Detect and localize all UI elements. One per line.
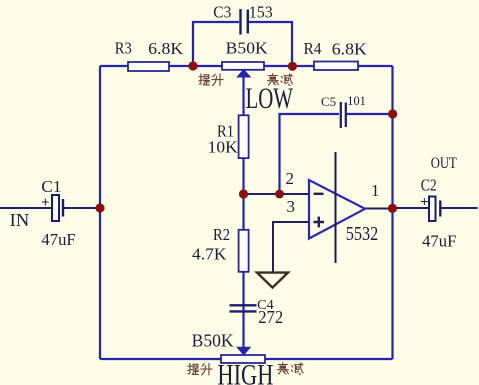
- svg-text:R3: R3: [115, 38, 132, 57]
- wire: rail to C2: [393, 207, 429, 209]
- svg-text:10K: 10K: [208, 137, 239, 156]
- wire: output to rail: [365, 208, 393, 210]
- resistor R3: [128, 62, 169, 71]
- label boost (top pot): [199, 74, 210, 85]
- svg-text:3: 3: [287, 197, 296, 216]
- label attenuate (bottom pot): [277, 362, 288, 374]
- svg-text:+: +: [41, 195, 49, 211]
- svg-text:R2: R2: [213, 225, 230, 244]
- wire: center column: [242, 76, 244, 347]
- svg-text:6.8K: 6.8K: [332, 40, 368, 59]
- op-amp power line: [335, 152, 337, 263]
- label boost (bottom pot): [188, 363, 199, 374]
- svg-text:OUT: OUT: [431, 155, 457, 172]
- svg-text:C2: C2: [421, 176, 437, 195]
- capacitor C3 plates: [241, 9, 248, 35]
- wire: pin2 input: [244, 193, 310, 195]
- svg-text:B50K: B50K: [192, 331, 234, 351]
- resistor R2: [239, 230, 249, 272]
- svg-text:101: 101: [347, 93, 366, 108]
- potentiometer B50K (LOW) wiper arrow: [237, 70, 250, 77]
- svg-text:272: 272: [258, 307, 283, 327]
- label attenuate (top pot): [267, 73, 278, 85]
- junction dot: attenuate node top right: [288, 62, 297, 71]
- junction dot: boost node top left: [188, 61, 197, 70]
- svg-text:6.8K: 6.8K: [148, 39, 184, 58]
- svg-text:47uF: 47uF: [422, 231, 456, 250]
- wire: C1 to left rail: [64, 207, 101, 209]
- svg-text:1: 1: [371, 181, 380, 200]
- junction dot: C5 branch: [275, 190, 284, 199]
- junction dot: center column / pin2: [239, 189, 248, 198]
- svg-text:2: 2: [286, 169, 295, 188]
- wire: top horizontal: [100, 65, 393, 67]
- ground: [257, 273, 288, 288]
- wire: IN horizontal: [0, 207, 51, 209]
- wire: right rail: [391, 66, 393, 359]
- op-amp minus sign: [314, 193, 324, 195]
- wire: C5 loop: [280, 114, 393, 194]
- potentiometer B50K (LOW) body: [222, 62, 264, 70]
- svg-text:IN: IN: [10, 210, 30, 230]
- capacitor C4 plates: [230, 305, 257, 311]
- svg-text:47uF: 47uF: [41, 230, 75, 249]
- svg-text:C5: C5: [321, 94, 336, 109]
- svg-text:R4: R4: [304, 39, 322, 58]
- resistor R1: [239, 115, 249, 158]
- svg-text:HIGH: HIGH: [217, 359, 273, 385]
- svg-text:LOW: LOW: [246, 83, 294, 115]
- wire: C2 to OUT edge: [441, 207, 478, 209]
- resistor R4: [314, 62, 358, 71]
- svg-text:153: 153: [249, 3, 273, 22]
- capacitor C2 (electrolytic): [429, 197, 436, 222]
- svg-text:C1: C1: [41, 177, 61, 196]
- wire: left rail: [99, 66, 101, 359]
- svg-text:4.7K: 4.7K: [192, 245, 227, 264]
- potentiometer B50K (HIGH) body: [221, 355, 265, 363]
- junction dot: output / right rail: [388, 204, 397, 213]
- capacitor C5 plates: [341, 102, 346, 128]
- svg-text:5532: 5532: [346, 223, 379, 245]
- wire: bottom horizontal: [100, 358, 393, 360]
- capacitor C1 (electrolytic): [52, 195, 59, 221]
- op-amp plus sign: [314, 217, 325, 228]
- svg-text:C3: C3: [213, 3, 231, 22]
- svg-text:+: +: [420, 195, 428, 211]
- wire: C3 feedback loop: [193, 22, 292, 66]
- op-amp U1 (5532) triangle: [309, 180, 365, 239]
- junction dot: C1 / left rail: [95, 203, 104, 212]
- potentiometer B50K (HIGH) wiper arrow: [237, 347, 250, 355]
- junction dot: C5 / right rail: [388, 109, 397, 118]
- wire: pin3 input: [273, 222, 309, 272]
- svg-text:B50K: B50K: [226, 39, 269, 58]
